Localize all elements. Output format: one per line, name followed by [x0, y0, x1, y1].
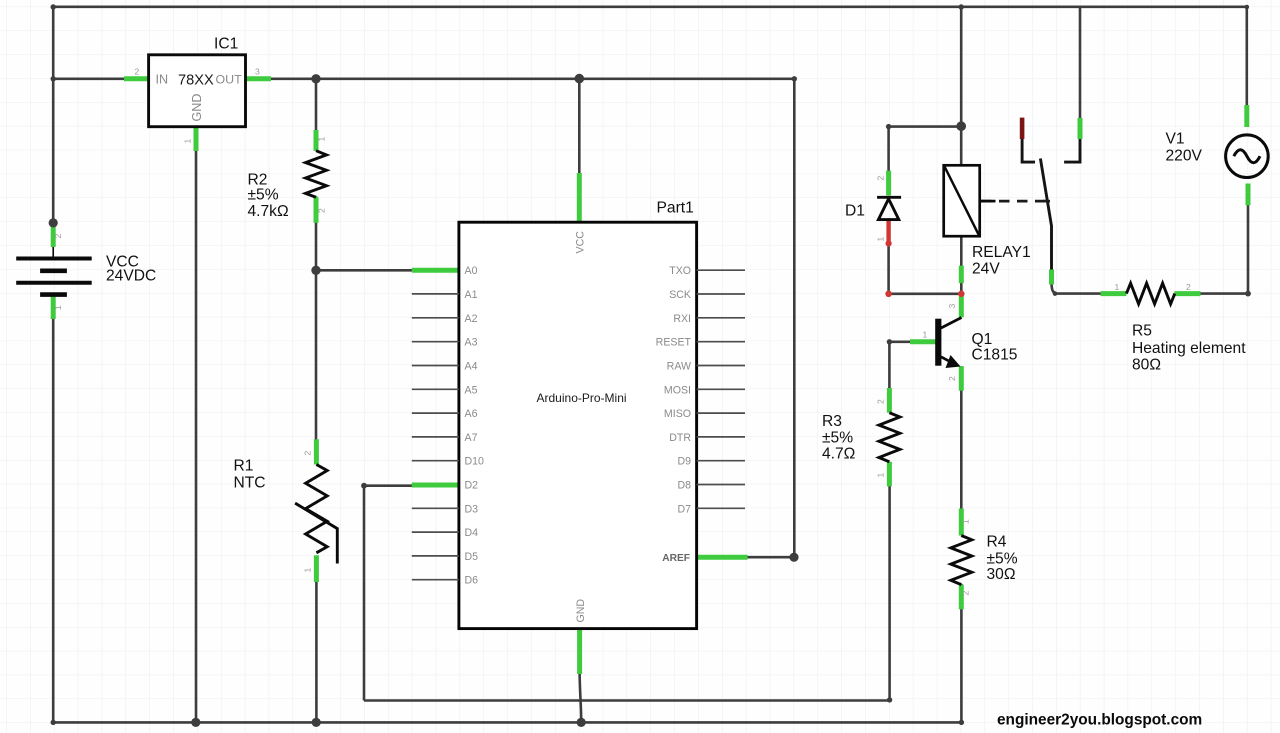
wire relay coil bottom [960, 236, 963, 294]
svg-text:4.7Ω: 4.7Ω [822, 446, 855, 463]
wire R3 bottom riser [888, 486, 891, 701]
transistor Q1 [935, 318, 961, 369]
svg-text:Q1: Q1 [972, 331, 993, 348]
wire bottom bus [53, 721, 961, 724]
svg-text:2: 2 [317, 208, 327, 213]
wire V1 bottom riser [1247, 204, 1250, 294]
svg-text:1: 1 [53, 305, 63, 310]
svg-text:TXO: TXO [669, 265, 691, 277]
svg-text:D3: D3 [465, 503, 479, 515]
svg-text:A0: A0 [465, 265, 478, 277]
wire D2 to left [364, 484, 413, 487]
svg-text:R1: R1 [234, 458, 254, 475]
svg-text:A4: A4 [465, 361, 478, 373]
svg-text:V1: V1 [1166, 131, 1185, 148]
wire top bus [53, 6, 1247, 9]
pin green D2 [412, 483, 459, 488]
svg-text:R4: R4 [987, 534, 1007, 551]
svg-text:3: 3 [255, 67, 260, 77]
pin green R4 top [959, 509, 964, 536]
svg-text:AREF: AREF [662, 553, 690, 564]
wire IC1 GND drop [195, 150, 198, 722]
pin green V1 top [1244, 105, 1249, 127]
svg-text:OUT: OUT [216, 72, 243, 86]
svg-text:A2: A2 [465, 313, 478, 325]
relay RELAY1 coil [944, 165, 996, 236]
svg-text:Heating element: Heating element [1132, 340, 1246, 357]
svg-text:D4: D4 [465, 527, 479, 539]
pin green A0 [412, 268, 459, 273]
svg-text:D9: D9 [677, 456, 691, 468]
wire switch right contact riser [1079, 7, 1082, 119]
svg-text:2: 2 [135, 67, 140, 77]
pin maroon switch left contact [1020, 118, 1025, 139]
wire relay top riser [960, 7, 963, 166]
pin green GND [577, 629, 582, 674]
svg-text:D1: D1 [845, 203, 865, 220]
svg-text:RESET: RESET [656, 337, 692, 349]
svg-text:RAW: RAW [667, 361, 691, 373]
wire D1 bottom to red node [887, 243, 890, 294]
svg-text:D7: D7 [677, 503, 691, 515]
wire switch bottom bend [1052, 282, 1102, 294]
wire VCC drop from rail [578, 79, 581, 174]
svg-text:GND: GND [575, 599, 587, 623]
resistor R2 zigzag [306, 151, 327, 197]
svg-text:1: 1 [303, 568, 313, 573]
pin green R2 top [314, 130, 319, 151]
wire R2 top from rail [315, 79, 318, 131]
svg-text:220V: 220V [1166, 148, 1203, 165]
wire GND pin to bottom bus [580, 673, 582, 722]
wire AREF junction to pin [747, 556, 794, 559]
wire D2 drop [363, 486, 366, 701]
wire red node link [889, 292, 962, 295]
svg-text:MOSI: MOSI [664, 384, 691, 396]
relay dashed link [981, 200, 1046, 203]
wire R4 bottom to bottom bus [960, 584, 963, 722]
svg-text:A3: A3 [465, 337, 478, 349]
wire D1 top corner [889, 127, 962, 172]
pin green R3 bottom [887, 462, 892, 487]
pin green R3 top [887, 388, 892, 413]
resistor R3 zigzag [879, 413, 900, 462]
pin green IC1 GND [194, 127, 199, 151]
wire node down to R1 top [315, 270, 318, 440]
svg-text:2: 2 [53, 234, 63, 239]
pin green R4 bottom [959, 585, 964, 610]
wire Q1 emitter to R4 [960, 366, 963, 509]
wire node to A0 [316, 269, 413, 272]
svg-text:D10: D10 [465, 456, 485, 468]
svg-text:±5%: ±5% [987, 551, 1018, 568]
svg-text:IC1: IC1 [214, 36, 238, 53]
thermistor R1 NTC zigzag [295, 465, 337, 564]
pin green switch right contact [1078, 118, 1083, 139]
svg-text:SCK: SCK [669, 289, 691, 301]
svg-text:±5%: ±5% [822, 430, 853, 447]
svg-text:D6: D6 [465, 575, 479, 587]
svg-text:R5: R5 [1132, 323, 1152, 340]
svg-text:A1: A1 [465, 289, 478, 301]
source V1 circle [1226, 135, 1269, 178]
svg-text:engineer2you.blogspot.com: engineer2you.blogspot.com [997, 712, 1202, 729]
pin green IC1 IN [124, 76, 149, 81]
svg-text:D2: D2 [465, 480, 479, 492]
pin green D1 top [886, 171, 891, 196]
svg-text:DTR: DTR [669, 432, 691, 444]
svg-text:30Ω: 30Ω [987, 566, 1016, 583]
svg-text:A7: A7 [465, 432, 478, 444]
pin green R5 left [1101, 291, 1127, 296]
pin green R2 bottom [314, 197, 319, 223]
pin green switch blade bottom [1049, 270, 1054, 285]
svg-text:C1815: C1815 [972, 347, 1018, 364]
mcu Part1 Arduino-Pro-Mini [412, 222, 745, 628]
resistor R4 zigzag [951, 536, 972, 585]
wire IC1 IN from left bus [53, 78, 124, 81]
svg-text:1: 1 [876, 473, 886, 478]
svg-text:GND: GND [190, 94, 204, 122]
svg-text:1: 1 [923, 330, 928, 340]
svg-text:RXI: RXI [673, 313, 691, 325]
pin green battery bottom [51, 295, 56, 319]
switch blade tick [1043, 200, 1050, 203]
svg-text:NTC: NTC [234, 475, 266, 492]
pin green R1 top [314, 439, 319, 464]
pin green Q1 emitter [959, 366, 964, 391]
wire V1 top riser [1246, 7, 1249, 106]
svg-text:2: 2 [303, 451, 313, 456]
svg-text:IN: IN [156, 72, 169, 86]
regulator IC1 78XX [149, 55, 246, 127]
pin green VCC [577, 173, 582, 222]
pin green V1 bottom [1246, 184, 1251, 206]
svg-text:1: 1 [317, 137, 327, 142]
wire D2 loop bottom [364, 699, 890, 702]
pin green Q1 collector [959, 297, 964, 318]
svg-text:24VDC: 24VDC [106, 268, 156, 285]
pin green R5 right [1174, 291, 1200, 296]
wire R3 top to base corner [888, 342, 891, 389]
svg-text:24V: 24V [972, 261, 1000, 278]
pin green R1 bottom [314, 555, 319, 582]
svg-text:2: 2 [947, 376, 957, 381]
wire left bus upper [52, 7, 55, 223]
svg-text:D5: D5 [465, 551, 479, 563]
svg-text:80Ω: 80Ω [1132, 357, 1161, 374]
svg-text:1: 1 [1115, 282, 1120, 292]
pin green IC1 OUT [246, 76, 272, 81]
svg-text:3: 3 [947, 304, 957, 309]
wire IC1 OUT rail to AREF riser [270, 78, 794, 81]
svg-text:1: 1 [961, 519, 971, 524]
wire base corner to Q1 base [889, 340, 911, 343]
pin green Q1 base [910, 339, 938, 344]
svg-text:Arduino-Pro-Mini: Arduino-Pro-Mini [537, 391, 627, 405]
svg-text:1: 1 [183, 139, 193, 144]
svg-text:2: 2 [961, 591, 971, 596]
svg-text:R3: R3 [822, 413, 842, 430]
diode D1 [877, 197, 901, 219]
wire R1 bottom to bottom bus [315, 581, 318, 722]
svg-text:1: 1 [876, 237, 886, 242]
svg-text:A6: A6 [465, 408, 478, 420]
switch contacts and blade [1022, 137, 1080, 271]
red junction dots [885, 291, 964, 298]
svg-text:D8: D8 [677, 480, 691, 492]
svg-text:2: 2 [876, 176, 886, 181]
wire AREF riser [793, 79, 796, 557]
pin green AREF [697, 555, 747, 560]
svg-text:Part1: Part1 [657, 200, 694, 217]
svg-text:±5%: ±5% [248, 187, 279, 204]
svg-text:2: 2 [1186, 282, 1191, 292]
wire R5 right to V1 riser [1200, 292, 1248, 295]
svg-text:4.7kΩ: 4.7kΩ [248, 203, 289, 220]
svg-text:MISO: MISO [664, 408, 691, 420]
wire left bus lower [52, 318, 55, 722]
svg-text:VCC: VCC [575, 231, 587, 254]
pin green relay coil bottom [959, 266, 964, 284]
svg-text:2: 2 [876, 399, 886, 404]
wire R2 bottom to node [315, 197, 318, 271]
pin red D1 anode stub [886, 221, 892, 247]
resistor R5 zigzag horizontal [1126, 283, 1174, 304]
battery VCC [16, 247, 92, 295]
svg-text:78XX: 78XX [178, 72, 214, 88]
pin green battery top [51, 227, 56, 248]
svg-text:RELAY1: RELAY1 [972, 244, 1031, 261]
svg-text:A5: A5 [465, 384, 478, 396]
